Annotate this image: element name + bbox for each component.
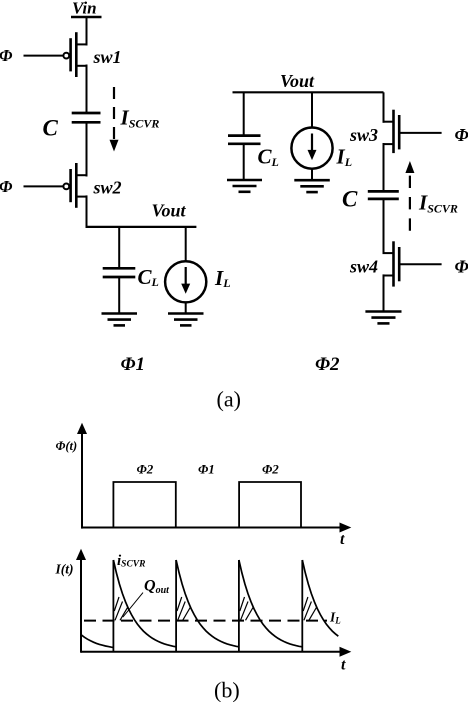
wire gate sw2: [24, 185, 64, 187]
hatch Qout area 1: [114, 597, 127, 620]
transistor sw3 (NMOS, mirrored): [349, 110, 399, 153]
current source IL (phase 2): [291, 92, 352, 180]
svg-text:C: C: [43, 116, 59, 141]
capacitor CL (phase 2): [228, 92, 279, 180]
svg-text:Φ: Φ: [455, 125, 468, 145]
spike 4: [301, 560, 303, 652]
wire gate sw3: [400, 132, 441, 134]
svg-text:C: C: [342, 187, 358, 212]
ground (under CL, phase 1): [102, 314, 138, 326]
spike 1: [112, 560, 114, 652]
svg-text:sw4: sw4: [349, 257, 378, 277]
wire capacitor C to sw2 drain: [86, 122, 88, 176]
decay curve 4: [302, 560, 338, 636]
svg-text:Φ: Φ: [0, 177, 13, 196]
spike 2: [175, 560, 177, 652]
hatch Qout area 3: [240, 597, 253, 620]
wire sw4 source to ground: [383, 274, 385, 311]
current arrow I_SCVR (up, dashed): [405, 161, 457, 231]
svg-text:Φ(t): Φ(t): [56, 439, 78, 453]
capacitor C (flying cap, right): [342, 187, 399, 212]
transistor sw1 (PMOS): [63, 32, 121, 77]
ground (under IL, phase 2): [294, 180, 330, 192]
axis I(t) vertical: [55, 549, 87, 653]
svg-text:Φ1: Φ1: [121, 354, 146, 375]
svg-text:Φ2: Φ2: [262, 462, 279, 477]
wire Vout rail to sw3 drain: [383, 92, 385, 122]
wire sw3 source to capacitor C: [383, 143, 385, 191]
svg-text:Φ2: Φ2: [137, 462, 154, 477]
hatch Qout area 4: [303, 597, 316, 620]
pulse PHI2 first: [113, 462, 175, 528]
wire Vin to sw1 drain: [86, 17, 88, 46]
hatch Qout area 2: [177, 597, 190, 620]
current arrow I_SCVR (down, dashed): [110, 87, 160, 152]
wire sw1 source to capacitor C: [86, 65, 88, 114]
svg-text:sw2: sw2: [93, 178, 122, 198]
wire gate sw4: [400, 263, 441, 265]
svg-text:Vout: Vout: [280, 71, 315, 91]
axis t horizontal (plot a): [82, 523, 351, 549]
decay curve 1: [113, 560, 176, 647]
svg-text:sw3: sw3: [349, 125, 378, 145]
decay curve 2: [176, 560, 239, 647]
capacitor CL (phase 1): [103, 227, 159, 314]
svg-text:(b): (b): [214, 678, 240, 702]
svg-text:Φ1: Φ1: [198, 462, 215, 477]
ground (under sw4): [365, 312, 401, 324]
dashed line IL level: [84, 610, 341, 626]
transistor sw4 (NMOS, mirrored): [349, 241, 399, 286]
svg-text:I(t): I(t): [55, 562, 74, 577]
svg-text:Vin: Vin: [72, 0, 97, 18]
node Vout (phase 1): [86, 201, 197, 227]
spike 3: [238, 560, 240, 652]
label Q_out with pointer: [123, 578, 170, 618]
node Vin (supply): [71, 0, 102, 18]
axis PHI(t) vertical: [56, 423, 88, 529]
transistor sw2 (PMOS): [63, 163, 121, 208]
ground (under IL, phase 1): [168, 314, 204, 326]
axis t horizontal (plot b): [81, 647, 351, 674]
current source IL (phase 1): [165, 227, 230, 314]
svg-text:Vout: Vout: [152, 201, 187, 221]
wire capacitor C to sw4 drain: [383, 199, 385, 254]
decay curve 3: [239, 560, 302, 647]
capacitor C (flying cap, left): [43, 113, 101, 141]
svg-text:Φ: Φ: [0, 46, 13, 65]
wire sw2 source to Vout rail: [86, 195, 88, 227]
ground (under CL, phase 2): [227, 180, 262, 192]
svg-text:Φ2: Φ2: [315, 354, 340, 375]
svg-text:t: t: [341, 657, 346, 674]
svg-text:Φ: Φ: [455, 256, 468, 276]
svg-text:(a): (a): [217, 387, 241, 412]
node Vout (phase 2): [233, 71, 384, 92]
svg-text:t: t: [340, 531, 345, 548]
curve tail (before first spike): [82, 635, 114, 647]
svg-text:sw1: sw1: [93, 47, 122, 67]
wire gate sw1: [24, 55, 64, 57]
pulse PHI2 second: [239, 462, 301, 528]
